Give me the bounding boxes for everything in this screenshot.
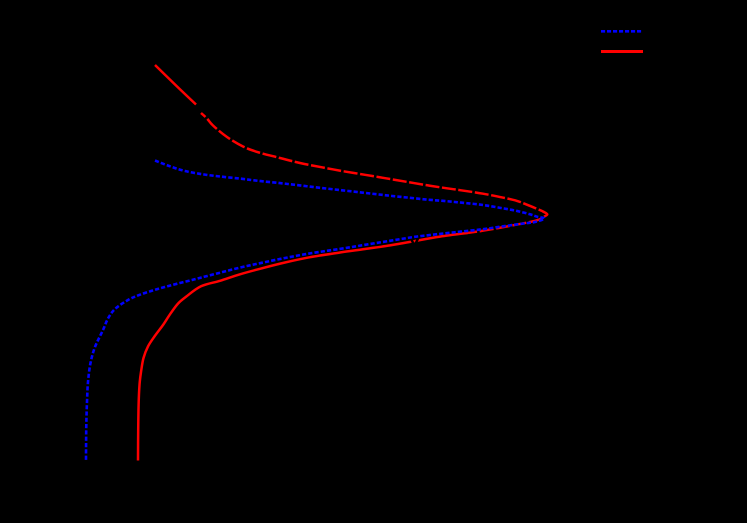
legend: red solid sample line [601,50,643,53]
red curve: dashed middle/unstable segment through the fold nose [201,113,547,233]
small V-shaped gap notch in red lower branch [410,237,418,246]
red curve: solid upper-left stable segment [155,65,196,105]
legend: blue dashed sample line [601,30,643,33]
blue dashed curve (C-shaped equilibrium branch) [86,161,545,462]
red curve: solid lower stable branch [138,233,468,461]
